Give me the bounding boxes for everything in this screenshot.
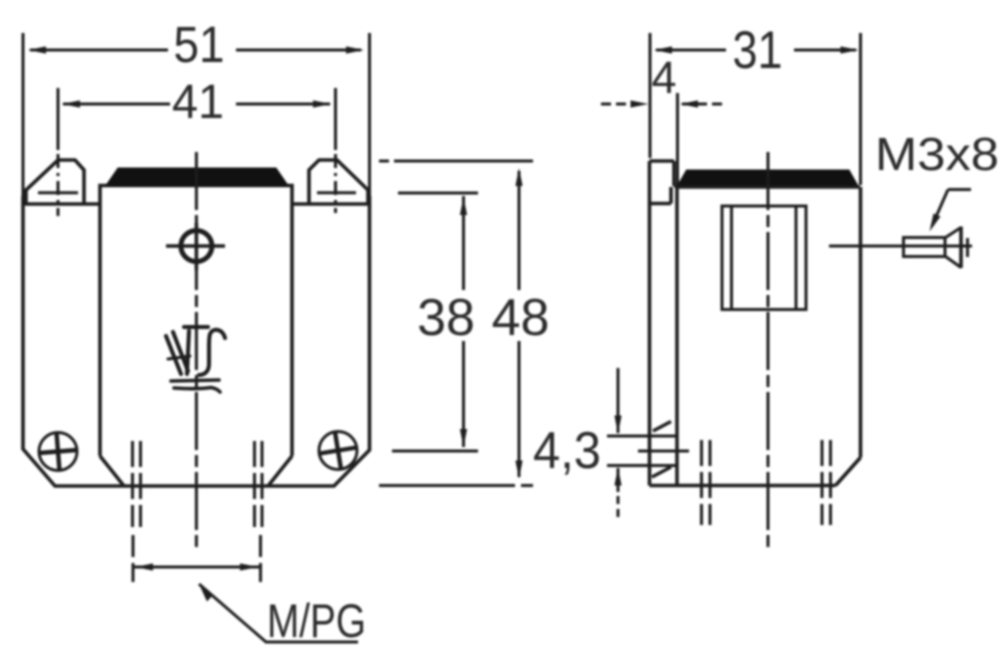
- svg-text:38: 38: [417, 289, 475, 347]
- svg-text:41: 41: [172, 76, 224, 129]
- svg-text:M/PG: M/PG: [267, 594, 366, 647]
- svg-text:4,3: 4,3: [533, 422, 601, 480]
- svg-text:51: 51: [174, 16, 225, 73]
- svg-text:31: 31: [733, 21, 783, 80]
- svg-text:48: 48: [492, 289, 550, 347]
- svg-text:4: 4: [651, 52, 676, 103]
- svg-text:M3x8: M3x8: [875, 128, 999, 180]
